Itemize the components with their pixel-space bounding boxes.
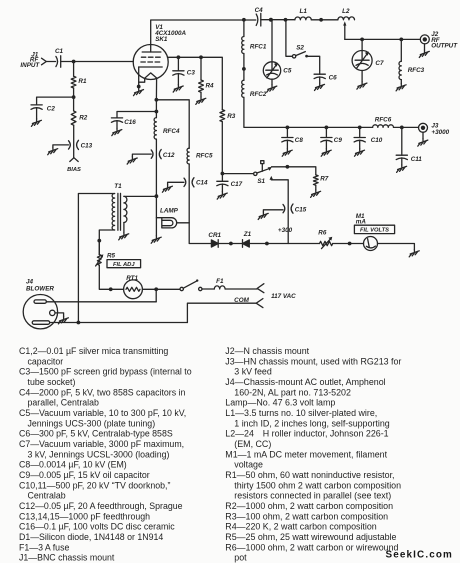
svg-text:SK1: SK1: [155, 36, 168, 43]
capacitor C16: [111, 118, 122, 122]
annotation box FIL ADJ: [107, 260, 141, 268]
inductor RFC1: [242, 37, 244, 54]
svg-text:Centralab: Centralab: [28, 491, 66, 501]
connector J2: [420, 35, 429, 44]
svg-text:C17: C17: [231, 181, 243, 188]
wire S2 feed from top rail: [286, 20, 293, 57]
junction dot filament split node: [155, 98, 159, 102]
ground R7: [311, 190, 321, 197]
junction dot screen supply node / C17: [221, 172, 225, 176]
ground lamp: [151, 236, 161, 243]
svg-text:117 VAC: 117 VAC: [271, 293, 296, 300]
capacitor C10: [354, 138, 365, 142]
svg-text:RFC5: RFC5: [196, 153, 213, 160]
capacitor C8: [282, 138, 293, 142]
wire switch to fuse F1: [202, 288, 214, 290]
svg-text:160-2N, AL part no. 713-5202: 160-2N, AL part no. 713-5202: [234, 387, 351, 397]
svg-text:(EM, CC): (EM, CC): [234, 439, 271, 449]
thermistor RT1: [124, 280, 143, 299]
wire RFC6 to J3: [394, 126, 419, 128]
wire T1 secondary bottom to ground: [123, 223, 125, 233]
capacitor C8 lead: [286, 127, 288, 137]
wire C5 feed from top rail: [271, 20, 273, 62]
svg-text:1 inch ID, 2 inches long, self: 1 inch ID, 2 inches long, self-supportin…: [234, 418, 389, 428]
svg-text:J4—Chassis-mount AC outlet, Am: J4—Chassis-mount AC outlet, Amphenol: [225, 377, 385, 387]
wire cathode lead to ground: [138, 67, 140, 87]
wire R7 to ground: [315, 185, 317, 190]
junction dot output / RFC3: [399, 38, 403, 42]
ground C9: [321, 149, 331, 156]
ground C16: [112, 128, 122, 135]
ground C2: [31, 119, 41, 126]
svg-text:resistors connected in paralle: resistors connected in parallel (see tex…: [234, 491, 391, 501]
wire C16 branch: [117, 112, 156, 118]
svg-text:C8: C8: [295, 137, 304, 144]
wire RFC3 lead: [400, 39, 402, 61]
svg-text:capacitor: capacitor: [28, 356, 64, 366]
svg-text:C4: C4: [255, 7, 264, 14]
svg-text:R1—50 ohm, 60 watt noninductiv: R1—50 ohm, 60 watt noninductive resistor…: [225, 470, 394, 480]
junction dot CR1-Z1 node: [229, 242, 233, 246]
junction dot HV / C9: [325, 126, 329, 130]
wire heater right leg down filament line: [155, 78, 157, 117]
wire S1 lower throw to C15 line: [271, 180, 288, 244]
svg-text:C7—Vacuum variable, 3000 pF ma: C7—Vacuum variable, 3000 pF maximum,: [19, 439, 184, 449]
junction dot node top rail / S2: [284, 18, 288, 22]
svg-text:C12—0.05 µF, 20 A feedthrough,: C12—0.05 µF, 20 A feedthrough, Sprague: [19, 501, 183, 511]
svg-text:C13,14,15—1000 pF feedthrough: C13,14,15—1000 pF feedthrough: [19, 511, 150, 521]
wire blower pin to ground: [55, 313, 64, 317]
svg-text:BLOWER: BLOWER: [26, 286, 54, 293]
wire RFC2 to HV rail: [244, 97, 373, 127]
junction dot HV / C11: [400, 126, 404, 130]
junction dot cathode-heater ground node: [137, 85, 141, 89]
resistor R1: [71, 76, 76, 88]
switch S1 toggle: [261, 164, 263, 172]
svg-text:C16—0.1 µF, 100 volts DC disc: C16—0.1 µF, 100 volts DC disc ceramic: [19, 522, 175, 532]
ground C13: [48, 147, 58, 154]
connector 117VAC hot chevron: [257, 284, 264, 293]
junction dot HV / C8: [286, 126, 290, 130]
inductor RFC4: [154, 118, 156, 140]
inductor RFC6: [373, 125, 394, 128]
wire Z1 to R6: [249, 243, 319, 245]
wire R5 line: [98, 241, 100, 255]
wire C3 to ground: [177, 74, 179, 85]
wire C13 ground lead: [53, 145, 69, 147]
svg-text:RFC4: RFC4: [163, 128, 180, 135]
svg-text:C10,11—500 pF, 20 kV “TV doork: C10,11—500 pF, 20 kV “TV doorknob,”: [19, 480, 170, 490]
svg-text:J2—N chassis mount: J2—N chassis mount: [225, 346, 309, 356]
wire C6 to ground: [319, 77, 321, 83]
capacitor C3: [173, 71, 184, 75]
capacitor C12 feedthrough: [151, 150, 161, 159]
capacitor C15 feedthrough: [283, 204, 293, 213]
wire filament node to lamp: [155, 196, 157, 236]
junction dot node top rail / RFC1: [242, 18, 246, 22]
wire lamp right lead to RFC5 column: [177, 222, 190, 224]
variable capacitor C5: [263, 62, 280, 79]
wire C1 to V1 control grid: [61, 61, 134, 63]
switch S1 pivot contact: [254, 172, 257, 175]
wire C7 to ground: [361, 71, 363, 82]
wire RFC5 to CR1 rail: [189, 164, 211, 244]
wire R1 to bias node: [73, 88, 75, 97]
ground RFC3: [396, 83, 406, 90]
svg-text:S2: S2: [296, 44, 304, 51]
wire output rail: [345, 38, 421, 40]
capacitor C11: [396, 155, 407, 159]
connector J1 chevron: [42, 58, 47, 65]
inductor RFC3: [399, 61, 401, 79]
svg-text:BIAS: BIAS: [67, 167, 81, 173]
wire J2 to ground: [424, 44, 426, 50]
ground C17: [217, 192, 227, 199]
svg-text:C2: C2: [47, 106, 56, 113]
junction dot bias node / C2: [72, 95, 76, 99]
svg-text:C9: C9: [334, 137, 343, 144]
wire C8 to ground: [286, 140, 288, 149]
connector COM chevron: [256, 299, 263, 308]
svg-text:C9—0.005 µF, 15 kV oil capacit: C9—0.005 µF, 15 kV oil capacitor: [19, 470, 150, 480]
svg-text:pot: pot: [234, 553, 247, 563]
tube V1 heater filament: [145, 73, 157, 78]
connector J4 blower socket: [23, 295, 57, 329]
resistor R2: [71, 111, 76, 125]
inductor RFC2: [242, 80, 244, 97]
svg-text:FIL VOLTS: FIL VOLTS: [360, 228, 389, 234]
wire top rail L1 to L2: [311, 19, 338, 21]
junction dot output / C7: [360, 38, 364, 42]
svg-text:SeekIC.com: SeekIC.com: [386, 550, 454, 561]
junction dot between RFC1 RFC2: [242, 67, 246, 71]
tube V1 cathode bar: [139, 66, 163, 68]
junction dot meter node: [348, 242, 352, 246]
wire blower hot lead: [46, 301, 156, 303]
junction dot +300 rail node: [265, 242, 269, 246]
fuse F1: [214, 286, 225, 289]
wire CR1 to Z1: [218, 243, 242, 245]
capacitor C17: [217, 181, 228, 185]
wire R5 to RT1 rail: [99, 265, 123, 289]
wire C11 lead: [401, 127, 403, 155]
variable capacitor C7: [352, 51, 372, 71]
connector J3: [419, 123, 428, 132]
tube V1 plate bar: [142, 51, 161, 53]
capacitor C13 feedthrough: [69, 140, 79, 149]
node BIAS chevron: [70, 158, 78, 162]
resistor R3: [220, 110, 225, 122]
junction dot blower neutral / T1 column: [77, 321, 81, 325]
svg-text:D1—Silicon diode, 1N4148 or 1N: D1—Silicon diode, 1N4148 or 1N914: [19, 532, 163, 542]
wire RFC1 lead from top rail: [243, 20, 245, 37]
svg-text:M1—1 mA DC meter movement, fil: M1—1 mA DC meter movement, filament: [225, 449, 387, 459]
wire screen node to S1 pivot: [222, 173, 253, 175]
junction dot T1 secondary / filament node: [155, 194, 159, 198]
svg-text:OUTPUT: OUTPUT: [431, 43, 458, 50]
svg-text:parallel, Centralab: parallel, Centralab: [28, 398, 100, 408]
svg-text:tube socket): tube socket): [28, 377, 76, 387]
wire RFC1 to RFC2: [243, 54, 245, 81]
capacitor C9 lead: [325, 127, 327, 137]
svg-text:C15: C15: [295, 206, 307, 213]
wire C2 to ground: [36, 108, 38, 119]
svg-text:F1: F1: [216, 278, 224, 285]
switch S1 blade: [257, 169, 269, 173]
wire C10 to ground: [359, 140, 361, 149]
svg-text:C3—1500 pF screen grid bypass: C3—1500 pF screen grid bypass (internal …: [19, 367, 192, 377]
wire L2 tap arrow to output rail: [344, 25, 346, 39]
svg-text:C12: C12: [163, 152, 175, 159]
svg-text:C3: C3: [187, 70, 196, 77]
svg-text:R1: R1: [78, 78, 87, 85]
wire C5 to ground: [271, 79, 273, 85]
junction dot filament / C16 node: [155, 110, 159, 114]
ground meter return: [409, 249, 419, 256]
ground C5: [267, 85, 277, 92]
svg-text:J3—HN chassis mount, used with: J3—HN chassis mount, used with RG213 for: [225, 356, 401, 366]
svg-text:T1: T1: [114, 183, 122, 190]
junction dot between L1 and L2: [319, 18, 323, 22]
svg-text:R5—25 ohm, 25 watt wirewound a: R5—25 ohm, 25 watt wirewound adjustable: [225, 532, 396, 542]
annotation box FIL VOLTS: [354, 225, 394, 233]
wire C17 to ground: [221, 184, 223, 192]
junction dot on R5 line: [97, 239, 101, 243]
junction dot screen / C3: [177, 55, 181, 59]
wire S1 upper throw to R7: [272, 167, 316, 175]
svg-text:L1—3.5 turns no. 10 silver-pla: L1—3.5 turns no. 10 silver-plated wire,: [225, 408, 377, 418]
wire J3 to ground: [422, 132, 424, 139]
wire R4 to ground: [200, 92, 202, 97]
svg-text:+3000: +3000: [431, 129, 449, 136]
ground C14: [162, 185, 172, 192]
svg-text:voltage: voltage: [234, 460, 263, 470]
switch power right contact: [199, 287, 202, 290]
ground blower: [58, 316, 68, 323]
svg-text:R6: R6: [318, 230, 327, 237]
junction dot S2 throw contact: [305, 55, 308, 58]
ground C10: [355, 149, 365, 156]
svg-text:Z1: Z1: [243, 231, 252, 238]
svg-text:RFC2: RFC2: [250, 91, 267, 98]
diode CR1: [211, 240, 218, 247]
wire plate lead V1 anode to top rail: [151, 20, 256, 52]
svg-text:3 kV feed: 3 kV feed: [234, 367, 272, 377]
svg-text:R2: R2: [79, 115, 88, 122]
blower bottom slot: [32, 321, 50, 325]
svg-text:C1: C1: [55, 48, 64, 55]
wire R6 to meter M1: [333, 243, 364, 245]
svg-text:C6—300 pF, 5 kV, Centralab-typ: C6—300 pF, 5 kV, Centralab-type 858S: [19, 429, 173, 439]
ground C6: [315, 83, 325, 90]
tube V1 4CX1000A envelope: [133, 45, 168, 80]
blower round pin: [50, 310, 55, 315]
ground C3: [173, 85, 183, 92]
svg-text:RFC3: RFC3: [408, 67, 425, 74]
capacitor C10 lead: [359, 127, 361, 137]
wire R4 lead: [200, 57, 202, 80]
svg-text:L1: L1: [300, 8, 308, 15]
svg-text:C11: C11: [411, 156, 423, 163]
resistor R5 rheostat: [97, 255, 101, 266]
wire T1 secondary top lead: [124, 195, 156, 197]
wire C16 to ground: [116, 121, 118, 129]
ground T1 secondary: [119, 232, 129, 239]
capacitor C1: [56, 56, 61, 67]
wire C15 ground lead: [263, 210, 283, 212]
svg-text:L2: L2: [342, 8, 350, 15]
wire RFC3 to ground: [400, 80, 402, 84]
wire RT1 to switch: [142, 288, 180, 290]
switch S1 blade arrowhead: [268, 167, 272, 171]
resistor R6 rheostat: [320, 241, 333, 245]
wire C7 feed: [361, 39, 363, 50]
ground J2: [419, 50, 429, 57]
wire J1 to C1: [46, 61, 55, 63]
capacitor C6: [314, 74, 325, 78]
svg-text:C4—2000 pF, 5 kV, two 858S cap: C4—2000 pF, 5 kV, two 858S capacitors in: [19, 387, 186, 397]
wire blower hot riser: [155, 289, 157, 302]
svg-text:R2—1000 ohm, 2 watt carbon com: R2—1000 ohm, 2 watt carbon composition: [225, 501, 393, 511]
tube V1 control grid dashes: [141, 61, 160, 63]
switch power blade: [183, 281, 196, 288]
wire fuse to 117VAC hot: [225, 288, 257, 290]
svg-text:CR1: CR1: [208, 232, 221, 239]
inductor L1: [295, 17, 311, 20]
wire COM line: [187, 303, 256, 322]
ground C11: [397, 165, 407, 172]
resistor R7: [313, 175, 318, 185]
svg-text:L2—24 H roller inductor, John: L2—24 H roller inductor, Johnson 226-1: [225, 429, 388, 439]
wire S2 to C6: [308, 56, 320, 74]
wire T1 primary bottom lead to R5: [99, 230, 114, 255]
svg-text:FIL ADJ: FIL ADJ: [113, 262, 135, 268]
ground cathode: [134, 88, 144, 95]
svg-text:C14: C14: [196, 180, 208, 187]
wire top rail C4 to L1: [261, 19, 295, 21]
svg-text:C13: C13: [81, 142, 93, 149]
diode Z1: [243, 240, 250, 247]
svg-text:INPUT: INPUT: [20, 62, 40, 69]
wire C11 to ground: [401, 158, 403, 165]
svg-text:Lamp—No. 47 6.3 volt lamp: Lamp—No. 47 6.3 volt lamp: [225, 398, 335, 408]
wire C12 ground lead: [132, 154, 151, 157]
wire filament node to RFC5 column: [156, 100, 189, 148]
switch S1 lower throw arrowhead: [270, 176, 274, 180]
wire screen grid to R3: [168, 57, 223, 109]
junction dot grid node / R1: [72, 60, 76, 64]
capacitor C2: [31, 105, 42, 109]
svg-text:J1—BNC chassis mount: J1—BNC chassis mount: [19, 553, 115, 563]
svg-text:C8—0.0014 µF, 10 kV (EM): C8—0.0014 µF, 10 kV (EM): [19, 460, 127, 470]
svg-text:RFC6: RFC6: [375, 116, 392, 123]
wire RFC4 to T1 node: [155, 139, 157, 196]
junction dot on S1 contact line: [286, 165, 290, 169]
svg-text:C5: C5: [283, 68, 292, 75]
svg-text:LAMP: LAMP: [160, 208, 179, 215]
svg-text:S1: S1: [257, 178, 265, 185]
svg-text:R7: R7: [320, 176, 329, 183]
ground C12: [127, 157, 137, 164]
ground R4: [196, 97, 206, 104]
junction dot screen / R4: [199, 55, 203, 59]
svg-text:F1—3 A fuse: F1—3 A fuse: [19, 542, 69, 552]
svg-text:J4: J4: [26, 279, 34, 286]
junction dot RT1 rail / blower hot: [154, 287, 158, 291]
ground C7: [357, 82, 367, 89]
svg-text:3 kV, Jennings UCSL-3000 (load: 3 kV, Jennings UCSL-3000 (loading): [28, 449, 170, 459]
wire bias node to R2: [73, 97, 75, 111]
wire heater left leg jog: [139, 78, 145, 82]
blower top slot: [34, 300, 46, 303]
svg-text:COM: COM: [234, 297, 249, 304]
transformer T1 core: [118, 193, 121, 230]
wire C14 ground lead: [168, 182, 184, 185]
switch S2 pivot contact: [292, 55, 295, 58]
meter M1: [364, 237, 378, 251]
svg-text:thirty 1500 ohm 2 watt carbon: thirty 1500 ohm 2 watt carbon compositio…: [234, 480, 401, 490]
wire T1 primary top lead to COM column: [78, 194, 114, 323]
wire blower neutral to COM rail: [50, 322, 188, 324]
lamp pilot light: [156, 218, 176, 228]
wire R3 to screen supply node: [221, 122, 223, 174]
inductor L2 roller: [338, 17, 355, 20]
capacitor C9: [321, 138, 332, 142]
wire bias node to C2: [37, 97, 74, 105]
resistor R4: [199, 80, 204, 92]
switch S2 blade: [296, 52, 306, 56]
wire C3 lead: [177, 57, 179, 71]
capacitor C14 feedthrough: [184, 178, 194, 187]
svg-text:C5—Vacuum variable, 10 to 300: C5—Vacuum variable, 10 to 300 pF, 10 kV,: [19, 408, 186, 418]
svg-text:C10: C10: [371, 137, 383, 144]
inductor RFC5: [187, 148, 189, 164]
svg-text:C16: C16: [124, 119, 136, 126]
wire C9 to ground: [325, 140, 327, 149]
wire meter to ground: [378, 244, 415, 250]
junction dot RT1 rail left: [109, 287, 113, 291]
svg-text:R3—100 ohm, 2 watt carbon comp: R3—100 ohm, 2 watt carbon composition: [225, 511, 388, 521]
svg-text:+300: +300: [278, 227, 293, 234]
svg-text:R4: R4: [206, 83, 215, 90]
svg-text:R5: R5: [107, 253, 116, 260]
svg-text:R6—1000 ohm, 2 watt carbon or: R6—1000 ohm, 2 watt carbon or wirewound: [225, 542, 398, 552]
capacitor C4: [256, 13, 261, 26]
junction dot node top rail / C5: [269, 18, 273, 22]
svg-text:C6: C6: [329, 75, 338, 82]
transformer T1 primary winding: [112, 194, 115, 231]
svg-text:C1,2—0.01 µF silver mica trans: C1,2—0.01 µF silver mica transmitting: [19, 346, 168, 356]
svg-text:RFC1: RFC1: [250, 44, 267, 51]
svg-text:RT1: RT1: [126, 275, 138, 282]
svg-text:C7: C7: [375, 60, 384, 67]
ground J3: [418, 139, 428, 146]
svg-text:R3: R3: [227, 113, 236, 120]
svg-text:Jennings UCS-300 (plate tuning: Jennings UCS-300 (plate tuning): [28, 418, 156, 428]
junction dot HV / C10: [358, 126, 362, 130]
wire grid node down to R1: [73, 62, 75, 77]
svg-text:R4—220 K, 2 watt carbon compos: R4—220 K, 2 watt carbon composition: [225, 522, 377, 532]
wire R2 to C13: [73, 125, 75, 158]
ground C8: [282, 149, 292, 156]
switch power left contact: [180, 287, 183, 290]
ground C15: [258, 212, 268, 219]
wire node to C17: [221, 174, 223, 182]
transformer T1 secondary winding: [124, 196, 127, 222]
tube V1 screen grid dashes: [141, 56, 160, 58]
